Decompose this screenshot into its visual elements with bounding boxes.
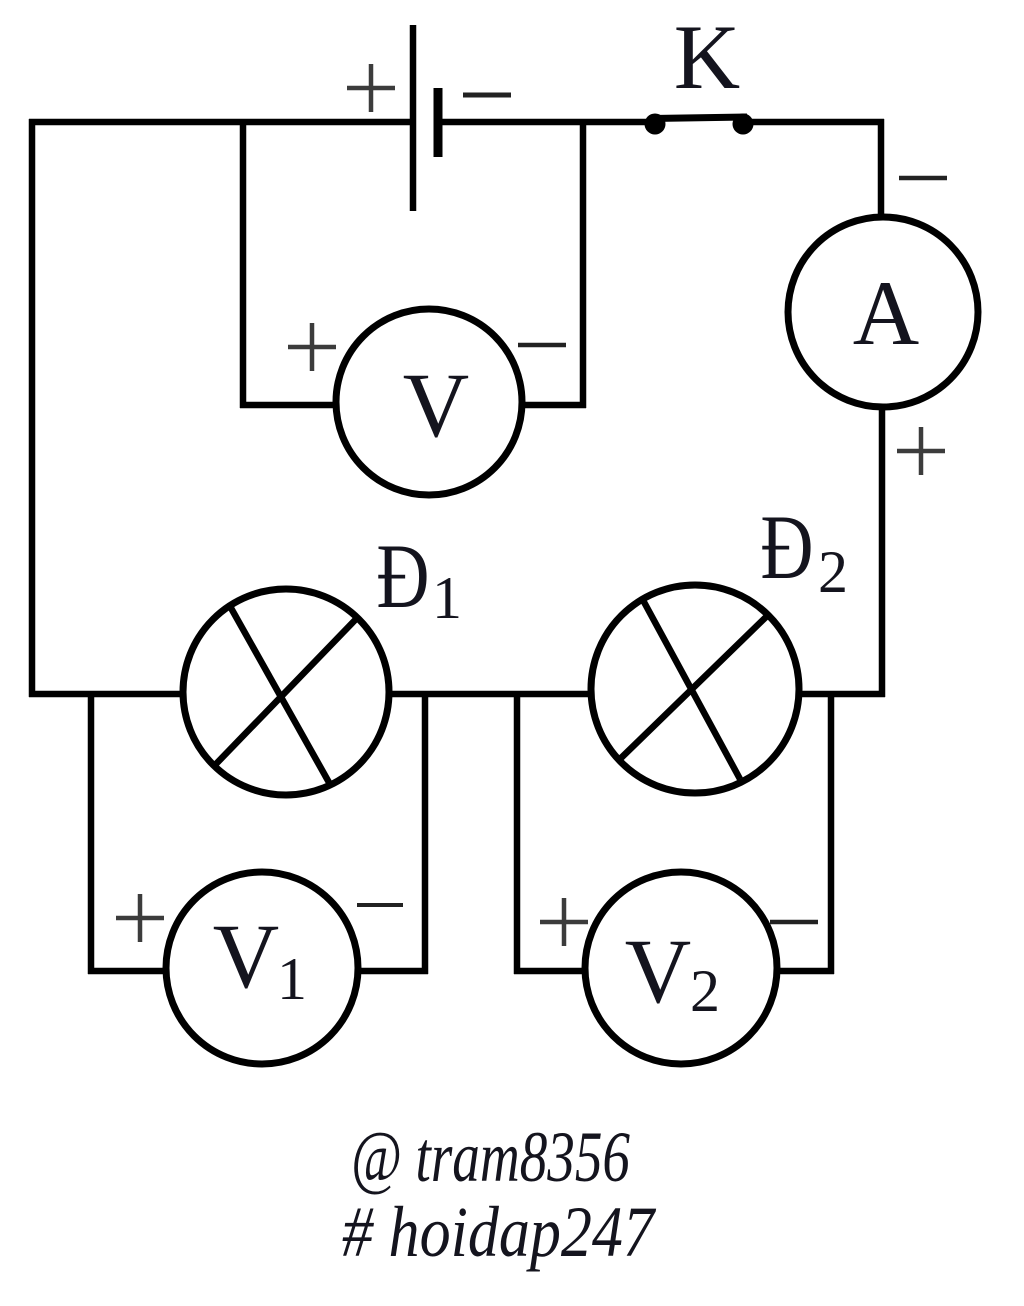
voltmeter V1 plus label: [116, 894, 164, 942]
svg-text:1: 1: [277, 946, 307, 1012]
voltmeter V2 circle: [585, 872, 777, 1064]
wire right vertical lower (ammeter to bus): [879, 406, 886, 697]
svg-text:Đ: Đ: [376, 526, 429, 628]
wire voltmeter V left branch horizontal: [240, 402, 338, 409]
svg-text:V: V: [625, 920, 691, 1022]
lamp D2 circle: [591, 585, 799, 793]
svg-text:# hoidap247: # hoidap247: [342, 1192, 657, 1272]
voltmeter V plus label: [288, 323, 336, 371]
switch K left contact dot: [645, 114, 666, 135]
wire left vertical: [29, 119, 36, 697]
wire voltmeter V1 left branch vertical: [88, 691, 95, 974]
wire voltmeter V1 right branch horizontal: [356, 968, 428, 975]
wire voltmeter V2 right branch vertical: [828, 691, 835, 974]
svg-text:2: 2: [818, 539, 848, 605]
svg-text:1: 1: [432, 565, 462, 631]
svg-text:V: V: [403, 354, 469, 456]
wire voltmeter V2 right branch horizontal: [775, 968, 834, 975]
wire voltmeter V right branch horizontal: [520, 402, 586, 409]
wire voltmeter V1 left branch horizontal: [88, 968, 168, 975]
battery minus label: [463, 93, 511, 98]
voltmeter V circle: [336, 309, 522, 495]
wire voltmeter V2 left branch vertical: [514, 691, 521, 974]
wire top-right horizontal (switch to right corner): [747, 119, 884, 126]
battery B1 positive plate: [410, 25, 417, 211]
ammeter minus label: [899, 176, 947, 181]
lamp D1 cross line 2: [215, 617, 358, 765]
wire voltmeter V left branch vertical: [240, 119, 247, 408]
voltmeter V2 minus label: [770, 920, 818, 925]
ammeter plus label: [897, 427, 945, 475]
battery B1 negative plate: [434, 88, 443, 157]
wire top-middle horizontal (battery to switch): [438, 119, 650, 126]
wire voltmeter V right branch vertical: [580, 119, 587, 408]
wire bottom bus middle segment: [388, 691, 593, 698]
svg-text:V: V: [213, 905, 279, 1007]
voltmeter V1 circle: [166, 872, 358, 1064]
voltmeter V1 minus label: [357, 903, 403, 907]
voltmeter V minus label: [518, 343, 566, 348]
wire voltmeter V1 right branch vertical: [422, 691, 429, 974]
svg-text:Đ: Đ: [760, 497, 813, 599]
voltmeter V2 plus label: [540, 898, 588, 946]
lamp D1 circle: [183, 589, 389, 795]
lamp D2 cross line 1: [644, 602, 740, 779]
wire right vertical upper (to ammeter): [878, 119, 885, 219]
svg-text:@ tram8356: @ tram8356: [351, 1117, 630, 1197]
wire top-left horizontal: [29, 119, 410, 126]
wire bottom bus right segment: [798, 691, 885, 698]
wire voltmeter V2 left branch horizontal: [514, 968, 587, 975]
switch K lever: [652, 117, 747, 119]
battery plus label: [347, 64, 395, 112]
ammeter A circle: [788, 217, 978, 407]
switch K right contact dot: [733, 114, 754, 135]
svg-text:2: 2: [690, 958, 720, 1024]
lamp D2 cross line 2: [620, 616, 767, 759]
svg-text:K: K: [674, 6, 740, 108]
svg-text:A: A: [853, 262, 919, 364]
wire bottom bus left segment: [29, 691, 184, 698]
lamp D1 cross line 1: [231, 608, 331, 786]
